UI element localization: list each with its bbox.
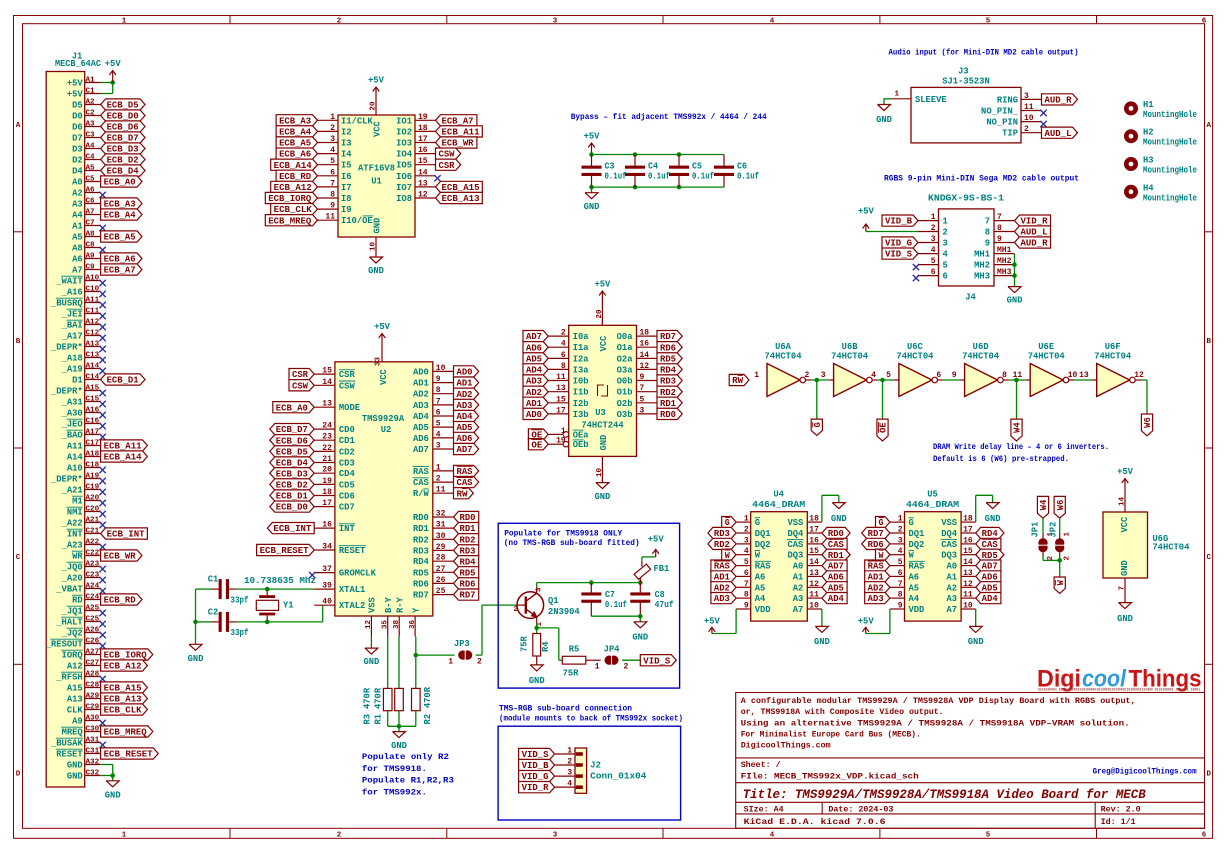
svg-text:I3a: I3a <box>573 365 590 375</box>
svg-text:D7: D7 <box>72 134 83 144</box>
svg-text:_A17: _A17 <box>61 332 83 342</box>
svg-text:(module mounts to back of TMS9: (module mounts to back of TMS992x socket… <box>499 714 683 724</box>
svg-text:A16: A16 <box>86 406 100 414</box>
svg-text:GND: GND <box>632 633 648 643</box>
U3 pin 5 O2b <box>617 395 683 409</box>
svg-text:Title: TMS9929A/TMS9928A/TMS99: Title: TMS9929A/TMS9928A/TMS9918A Video … <box>743 787 1146 802</box>
U2 pin 15 CSR <box>289 367 355 381</box>
svg-text:IO2: IO2 <box>396 127 412 137</box>
svg-text:A15: A15 <box>67 684 83 694</box>
svg-text:A5: A5 <box>909 583 920 593</box>
svg-text:ECB_MREQ: ECB_MREQ <box>268 216 312 226</box>
svg-text:3: 3 <box>436 442 441 451</box>
U4 pin 13 A1 <box>793 569 847 583</box>
svg-text:DigicoolThings.com: DigicoolThings.com <box>741 741 831 751</box>
U5 pin 6 A6 <box>865 569 919 583</box>
J4 pin 8 AUD_L <box>985 224 1051 238</box>
svg-text:J2: J2 <box>590 761 601 771</box>
svg-text:470R: 470R <box>363 687 373 709</box>
J1 pin C27 A12 <box>67 659 148 671</box>
J1 pin C12 _A17 <box>61 329 106 341</box>
svg-text:3: 3 <box>821 371 826 380</box>
svg-text:ECB_D6: ECB_D6 <box>107 123 139 133</box>
svg-text:6: 6 <box>1202 17 1207 25</box>
svg-text:A3: A3 <box>72 200 83 210</box>
svg-text:XTAL2: XTAL2 <box>339 601 365 611</box>
J4 pin 9 AUD_R <box>985 235 1051 249</box>
J4 pin 6 <box>913 268 948 282</box>
J4 pin 4 <box>882 246 949 260</box>
svg-text:5: 5 <box>898 558 903 567</box>
svg-text:AD7: AD7 <box>526 332 542 342</box>
svg-text:1: 1 <box>595 663 600 672</box>
connector J3 SJ1-3523N body <box>911 67 1021 143</box>
svg-text:DQ3: DQ3 <box>787 551 803 561</box>
svg-text:RD: RD <box>72 596 83 606</box>
svg-text:13: 13 <box>1079 371 1089 380</box>
svg-text:GND: GND <box>599 435 609 451</box>
svg-text:AD2: AD2 <box>413 390 429 400</box>
svg-text:C: C <box>16 554 21 562</box>
svg-text:2: 2 <box>1024 125 1029 134</box>
svg-text:_DEPR*: _DEPR* <box>50 343 83 353</box>
svg-text:3: 3 <box>898 536 903 545</box>
svg-text:8: 8 <box>997 224 1002 233</box>
crystal Y1 10.738635 Mhz <box>244 576 316 622</box>
connector J2 Conn_01x04 body <box>575 748 647 793</box>
svg-text:A25: A25 <box>86 604 100 612</box>
ferrite bead FB1 <box>634 535 669 583</box>
svg-text:24: 24 <box>322 422 332 431</box>
svg-text:ECB_WR: ECB_WR <box>442 139 475 149</box>
svg-text:1: 1 <box>330 113 335 122</box>
J1 pin A21 _A22 <box>61 516 106 528</box>
svg-text:A12: A12 <box>67 662 83 672</box>
svg-text:C20: C20 <box>86 505 100 513</box>
svg-text:AD3: AD3 <box>868 594 884 604</box>
IC U5 4464_DRAM body <box>905 489 962 621</box>
svg-text:VID_G: VID_G <box>522 772 549 782</box>
svg-text:AUD_R: AUD_R <box>1045 96 1073 106</box>
svg-text:_A30: _A30 <box>61 409 83 419</box>
J1 pin A14 _A19 <box>61 362 106 374</box>
svg-text:GND: GND <box>1117 614 1133 624</box>
U1 pin 16 IO4 <box>396 146 461 160</box>
svg-text:CAS: CAS <box>457 478 473 488</box>
svg-text:_JQ0: _JQ0 <box>61 563 83 573</box>
svg-text:470R: 470R <box>423 686 433 708</box>
svg-text:G: G <box>879 518 884 528</box>
U5 pin 17 DQ4 <box>941 526 1004 540</box>
J1 pin C9 A7 <box>72 263 142 275</box>
svg-text:13: 13 <box>963 569 973 578</box>
svg-text:U5: U5 <box>927 489 938 499</box>
svg-text:4: 4 <box>436 430 441 439</box>
svg-text:12: 12 <box>809 580 819 589</box>
svg-text:6: 6 <box>943 272 948 282</box>
U5 pin 18 VSS <box>941 515 975 529</box>
resistor R3 470R <box>363 637 393 725</box>
U4 pin 3 DQ2 <box>708 536 771 550</box>
svg-text:C1: C1 <box>86 87 96 95</box>
IC U2 TMS9929A body <box>335 362 433 616</box>
svg-text:4: 4 <box>898 547 903 556</box>
J1 pin C30 MREQ <box>61 725 153 737</box>
bypass +5V symbol <box>584 132 601 155</box>
svg-text:5: 5 <box>931 257 936 266</box>
svg-text:C31: C31 <box>86 747 100 755</box>
svg-text:RD4: RD4 <box>660 366 677 376</box>
J4 pin 2 <box>858 207 948 238</box>
svg-text:U3: U3 <box>595 408 606 418</box>
svg-text:RD3: RD3 <box>413 546 429 556</box>
J1 pin C26 _RESOUT <box>45 637 106 649</box>
title block frame <box>736 693 1205 829</box>
capacitor C1 33pf <box>208 575 249 606</box>
svg-text:ECB_A6: ECB_A6 <box>104 255 136 265</box>
svg-text:A1: A1 <box>947 572 958 582</box>
svg-text:1: 1 <box>943 217 948 227</box>
J1 pin C22 WR <box>72 549 142 561</box>
svg-text:ECB_A3: ECB_A3 <box>104 200 136 210</box>
U1 pin 1 I1/CLK <box>276 113 373 127</box>
svg-text:VCC: VCC <box>373 120 383 137</box>
svg-text:GND: GND <box>188 654 204 664</box>
U1 pin 14 IO6 <box>396 168 441 182</box>
U5 pin 4 W <box>876 547 915 561</box>
U2 pin 21 CD3 <box>270 455 355 469</box>
U3 VCC pin 20 to +5V <box>594 280 611 326</box>
svg-text:ECB_A3: ECB_A3 <box>279 116 311 126</box>
svg-text:C6: C6 <box>86 197 96 205</box>
svg-text:U2: U2 <box>381 425 392 435</box>
svg-text:RD0: RD0 <box>460 513 476 523</box>
svg-text:RD0: RD0 <box>828 529 844 539</box>
U2 pin 22 CD2 <box>270 444 355 458</box>
svg-text:G: G <box>813 422 823 427</box>
svg-text:(no TMS-RGB sub-board fitted): (no TMS-RGB sub-board fitted) <box>504 538 640 548</box>
svg-text:17: 17 <box>809 526 819 535</box>
svg-text:CD4: CD4 <box>339 469 356 479</box>
svg-text:MH1: MH1 <box>997 246 1012 255</box>
svg-text:A14: A14 <box>67 453 84 463</box>
J1 pin A25 _JQ1 <box>61 604 106 616</box>
svg-text:A20: A20 <box>86 494 100 502</box>
svg-text:CD0: CD0 <box>339 425 355 435</box>
svg-text:ECB_A14: ECB_A14 <box>104 453 143 463</box>
J2 pin 2 VID_B <box>519 758 583 772</box>
svg-text:AD4: AD4 <box>828 594 845 604</box>
svg-text:1: 1 <box>436 463 441 472</box>
U4 pin 6 A6 <box>711 569 765 583</box>
J1 pin A30 A9 <box>72 714 106 726</box>
svg-text:XTAL1: XTAL1 <box>339 585 365 595</box>
U3 pin 7 O1b <box>617 384 683 398</box>
svg-text:VID_B: VID_B <box>522 761 550 771</box>
svg-text:VID_R: VID_R <box>1021 217 1049 227</box>
svg-text:2: 2 <box>898 526 903 535</box>
svg-text:Using an alternative TMS9929A: Using an alternative TMS9929A / TMS9928A… <box>741 718 1130 728</box>
svg-text:A6: A6 <box>72 255 83 265</box>
svg-text:ECB_D0: ECB_D0 <box>276 503 308 513</box>
svg-text:9: 9 <box>898 602 903 611</box>
J1 pin C15 _A31 <box>61 395 106 407</box>
svg-text:SJ1-3523N: SJ1-3523N <box>942 77 990 87</box>
svg-text:DQ3: DQ3 <box>941 551 957 561</box>
U6G GND pin 7 <box>1117 578 1133 624</box>
svg-text:ECB_A4: ECB_A4 <box>279 128 312 138</box>
svg-text:8: 8 <box>1002 371 1007 380</box>
svg-text:6: 6 <box>561 351 566 360</box>
svg-text:MountingHole: MountingHole <box>1143 138 1197 148</box>
svg-text:3: 3 <box>330 135 335 144</box>
svg-text:GND: GND <box>876 115 892 125</box>
J1 pin A4 D3 <box>72 142 145 154</box>
svg-text:C3: C3 <box>86 131 96 139</box>
J1 pin A8 A5 <box>72 230 142 242</box>
svg-text:ECB_A14: ECB_A14 <box>274 161 313 171</box>
U1 GND pin 10 <box>368 237 384 276</box>
J1 pin A29 A13 <box>67 692 148 704</box>
svg-text:19: 19 <box>556 437 566 446</box>
svg-text:4464_DRAM: 4464_DRAM <box>906 500 959 510</box>
svg-text:RD6: RD6 <box>660 343 676 353</box>
svg-text:RD2: RD2 <box>660 388 676 398</box>
svg-text:MREQ: MREQ <box>62 728 84 738</box>
svg-text:B: B <box>1206 338 1211 346</box>
U2 pin 25 RD7 <box>413 587 479 601</box>
svg-text:C7: C7 <box>605 590 615 600</box>
svg-text:GND: GND <box>363 657 379 667</box>
svg-text:15: 15 <box>963 547 973 556</box>
J1 pin C18 A10 <box>67 461 106 473</box>
svg-text:28: 28 <box>436 554 446 563</box>
svg-text:DQ4: DQ4 <box>941 529 958 539</box>
svg-text:RD5: RD5 <box>660 355 676 365</box>
svg-text:2: 2 <box>624 663 629 672</box>
svg-text:I0a: I0a <box>573 332 590 342</box>
svg-text:RESET: RESET <box>56 750 83 760</box>
svg-text:ECB_IORQ: ECB_IORQ <box>268 194 312 204</box>
J1 pin C31 RESET <box>56 747 159 759</box>
inverter U6A 74HCT04 <box>754 342 809 397</box>
svg-text:A11: A11 <box>67 442 83 452</box>
svg-text:Date: 2024-03: Date: 2024-03 <box>828 804 893 814</box>
svg-text:U6B: U6B <box>842 342 859 352</box>
U5 pin 11 A3 <box>947 591 1001 605</box>
U5 pin 12 A2 <box>947 580 1001 594</box>
svg-text:4: 4 <box>871 371 876 380</box>
svg-text:14: 14 <box>418 168 428 177</box>
svg-text:A9: A9 <box>72 717 83 727</box>
resistor R4 75R <box>519 628 551 686</box>
svg-text:1: 1 <box>122 17 127 25</box>
svg-text:19: 19 <box>418 113 428 122</box>
svg-text:7: 7 <box>1118 586 1126 591</box>
svg-text:5: 5 <box>640 395 645 404</box>
svg-text:H4: H4 <box>1143 183 1154 193</box>
U3 pin 12 O3a <box>617 362 683 376</box>
svg-text:A1: A1 <box>793 572 804 582</box>
svg-text:GND: GND <box>584 202 600 212</box>
J4 pin 1 <box>882 213 948 227</box>
svg-text:A0: A0 <box>72 178 83 188</box>
svg-text:DQ1: DQ1 <box>755 529 771 539</box>
U5 pin 5 RAS <box>865 558 925 572</box>
svg-text:ECB_RESET: ECB_RESET <box>260 546 310 556</box>
svg-text:AUD_R: AUD_R <box>1021 239 1049 249</box>
svg-text:2: 2 <box>805 371 810 380</box>
svg-text:8: 8 <box>898 591 903 600</box>
svg-text:1: 1 <box>898 515 903 524</box>
svg-text:RD2: RD2 <box>460 535 476 545</box>
resistor R1 470R <box>374 637 404 725</box>
U2 pin 40 XTAL2 <box>314 598 365 612</box>
svg-text:4: 4 <box>744 547 749 556</box>
U2 pin 13 MODE <box>273 400 360 414</box>
svg-text:14: 14 <box>963 558 973 567</box>
svg-text:4: 4 <box>943 250 949 260</box>
svg-text:OEa: OEa <box>573 430 590 440</box>
J1 pin A13 _DEPR* <box>50 340 106 352</box>
note frame: TMS-RGB sub-board connection <box>498 704 683 820</box>
svg-text:A26: A26 <box>86 626 100 634</box>
svg-text:Populate only R2: Populate only R2 <box>362 752 449 762</box>
wire U6F output to W6 label <box>1136 380 1154 436</box>
U5 pin 13 A1 <box>947 569 1001 583</box>
svg-text:RD6: RD6 <box>460 580 476 590</box>
svg-text:GND: GND <box>373 218 383 234</box>
svg-text:AD3: AD3 <box>413 401 429 411</box>
U4 pin 18 VSS <box>787 515 821 529</box>
svg-text:ECB_A4: ECB_A4 <box>104 211 137 221</box>
svg-text:B: B <box>16 338 21 346</box>
svg-text:CSW: CSW <box>439 150 456 160</box>
svg-text:AUD_L: AUD_L <box>1045 129 1072 139</box>
svg-text:Populate R1,R2,R3: Populate R1,R2,R3 <box>362 776 454 786</box>
svg-text:+5V: +5V <box>67 90 84 100</box>
J1 pin A22 _A23 <box>61 538 106 550</box>
net label W6 at JP2 <box>1054 496 1066 518</box>
svg-text:for TMS9918.: for TMS9918. <box>362 764 427 774</box>
J1 pin C1 +5V <box>67 87 101 99</box>
svg-text:ECB_RD: ECB_RD <box>279 172 311 182</box>
svg-text:_BAO: _BAO <box>61 431 83 441</box>
svg-text:D4: D4 <box>72 167 83 177</box>
svg-text:_HALT: _HALT <box>55 618 83 628</box>
svg-text:15: 15 <box>322 367 332 376</box>
svg-text:MountingHole: MountingHole <box>1143 166 1197 176</box>
svg-text:WR: WR <box>72 552 83 562</box>
U2 pin 4 AD6 <box>413 430 479 444</box>
svg-text:_BUSAK: _BUSAK <box>50 739 83 749</box>
svg-text:32: 32 <box>436 510 446 519</box>
U3 pin 1 OEa <box>528 427 589 441</box>
svg-text:2: 2 <box>561 329 566 338</box>
U1 pin 8 I8 <box>265 191 351 205</box>
svg-text:RD4: RD4 <box>413 557 430 567</box>
svg-text:ECB_A15: ECB_A15 <box>104 684 142 694</box>
svg-text:RD3: RD3 <box>660 377 676 387</box>
svg-text:O1a: O1a <box>617 343 634 353</box>
svg-text:GND: GND <box>529 676 545 686</box>
svg-text:CLK: CLK <box>67 706 84 716</box>
svg-text:I4: I4 <box>341 150 352 160</box>
svg-text:A8: A8 <box>86 230 96 238</box>
svg-text:1: 1 <box>561 427 566 436</box>
svg-text:CD2: CD2 <box>339 447 355 457</box>
svg-text:33pf: 33pf <box>231 628 249 638</box>
svg-text:_BUSRQ: _BUSRQ <box>50 299 83 309</box>
svg-text:O3b: O3b <box>617 410 633 420</box>
svg-text:JP1: JP1 <box>1030 522 1040 538</box>
svg-text:RD3: RD3 <box>714 529 730 539</box>
svg-text:MH1: MH1 <box>974 250 990 260</box>
U4 pin 1 G <box>722 515 760 529</box>
svg-text:VID_S: VID_S <box>643 656 670 666</box>
svg-text:W6: W6 <box>1143 417 1153 428</box>
U5 VSS ground wire <box>976 495 1001 524</box>
svg-text:7: 7 <box>640 384 645 393</box>
svg-text:INT: INT <box>339 524 356 534</box>
J2 pin 3 VID_G <box>519 769 583 783</box>
svg-text:0.1uf: 0.1uf <box>692 172 714 182</box>
svg-text:A5: A5 <box>72 233 83 243</box>
crystal GND symbol <box>188 644 204 664</box>
svg-text:C14: C14 <box>86 373 100 381</box>
U2 pin 10 AD0 <box>413 364 479 378</box>
svg-text:14: 14 <box>640 351 650 360</box>
inverter U6B 74HCT04 <box>821 342 876 397</box>
svg-text:12: 12 <box>1134 371 1144 380</box>
svg-text:A32: A32 <box>86 758 100 766</box>
svg-text:74HCT04: 74HCT04 <box>831 352 869 362</box>
svg-text:ECB_RESET: ECB_RESET <box>104 750 154 760</box>
svg-text:_A19: _A19 <box>61 365 83 375</box>
J1 pin A23 _JQ0 <box>61 560 106 572</box>
svg-text:C27: C27 <box>86 659 100 667</box>
svg-text:10: 10 <box>436 364 446 373</box>
J1 pin A28 _RFSH <box>55 670 106 682</box>
svg-text:M1: M1 <box>72 497 83 507</box>
svg-text:A28: A28 <box>86 670 100 678</box>
svg-text:_A18: _A18 <box>61 354 83 364</box>
wire U6A output to U6B input <box>806 379 834 381</box>
svg-text:AD3: AD3 <box>526 377 542 387</box>
svg-text:AD7: AD7 <box>457 445 473 455</box>
svg-text:C25: C25 <box>86 615 100 623</box>
J1 pin C13 _A18 <box>61 351 106 363</box>
svg-text:5: 5 <box>986 17 991 25</box>
svg-text:16: 16 <box>809 536 819 545</box>
U2 pin 29 RD3 <box>413 543 479 557</box>
mounting hole H1 <box>1124 100 1197 120</box>
svg-text:J3: J3 <box>958 67 969 77</box>
svg-text:W4: W4 <box>1013 422 1023 433</box>
U2 pin 30 RD2 <box>413 532 479 546</box>
svg-text:A18: A18 <box>86 450 100 458</box>
U2 pin 14 CSW <box>289 378 355 392</box>
svg-text:15: 15 <box>809 547 819 556</box>
svg-text:D2: D2 <box>72 156 83 166</box>
svg-text:ECB_CLK: ECB_CLK <box>104 706 143 716</box>
svg-text:+5V: +5V <box>67 79 84 89</box>
mounting hole H3 <box>1124 156 1197 176</box>
title block title <box>743 787 1146 802</box>
svg-text:14: 14 <box>809 558 819 567</box>
J1 pin A2 D5 <box>72 98 145 110</box>
svg-text:B-Y: B-Y <box>384 596 394 613</box>
